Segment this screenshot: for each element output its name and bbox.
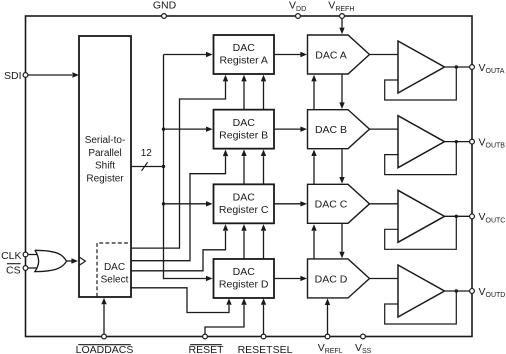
svg-text:Register A: Register A [219,55,267,67]
svg-text:RESET: RESET [188,344,224,354]
wire ref up D to C [313,231,315,259]
op-amp C feedback loop [385,216,457,249]
wire bus to DAC Register A [164,54,207,56]
svg-text:DAC: DAC [104,262,125,273]
wire DAC B to op-amp [370,128,399,130]
svg-text:LOADDACS: LOADDACS [76,344,134,354]
svg-text:CS: CS [6,264,21,276]
svg-text:CLK: CLK [1,250,21,262]
op-amp A feedback loop [385,67,457,100]
svg-text:DAC: DAC [233,42,256,54]
DAC Register A box [214,35,275,74]
wire SDI to shift register [28,74,72,76]
wire LOADDACS to shift register [103,304,105,334]
pin GND [162,14,167,19]
DAC B pentagon [308,110,370,149]
wire select to register B [131,156,226,261]
clock input triangle [80,257,86,265]
pin LOADDACS [102,334,107,339]
wire ref down B to C [341,149,343,177]
wire bus to DAC Register D [164,277,207,279]
pin VOUTC [470,214,475,219]
wire op-amp B output [445,141,473,143]
wire ref down C to D [341,224,343,252]
svg-text:DAC: DAC [233,192,256,204]
op-amp A [398,41,445,93]
wire load chain C-B right [263,156,265,184]
pin SDI [23,73,28,78]
pin VREFL [325,334,330,339]
DAC D pentagon [308,259,370,298]
wire register A to DAC A [274,54,301,56]
wire load chain B-A left [243,82,245,110]
svg-text:Parallel: Parallel [88,148,121,159]
pin VOUTD [470,289,475,294]
op-amp D feedback loop [385,291,457,324]
wire op-amp A output [445,66,473,68]
wire VREFH to DAC A [341,18,343,27]
wire register D to DAC D [274,277,301,279]
svg-text:GND: GND [153,0,177,12]
junction op-amp A output [455,65,458,68]
wire register B to DAC B [274,128,301,130]
svg-text:DAC: DAC [233,117,256,129]
op-amp B [398,116,445,168]
op-amp C [398,190,445,242]
DAC A pentagon [308,35,370,74]
wire load chain D-C right [263,231,265,259]
wire select to register C [131,231,226,271]
svg-text:Register: Register [86,173,124,184]
svg-text:Register C: Register C [219,204,269,216]
pin VSS [361,334,366,339]
pin RESETSEL [261,334,266,339]
DAC Register C box [214,184,275,223]
wire CLK to gate [28,254,40,256]
svg-text:Select: Select [101,275,129,286]
pin VOUTB [470,139,475,144]
DAC C pentagon [308,184,370,223]
junction op-amp C output [455,215,458,218]
svg-text:DAC: DAC [233,266,256,278]
svg-text:RESETSEL: RESETSEL [238,344,293,354]
junction bus-B [162,127,165,130]
wire ref up B to A [313,82,315,110]
svg-text:DAC B: DAC B [315,124,347,136]
svg-text:Serial-to-: Serial-to- [85,135,126,146]
svg-text:Register D: Register D [219,279,269,291]
svg-text:DAC C: DAC C [315,199,348,211]
junction bus-12 [162,165,165,168]
wire DAC C to op-amp [370,203,399,205]
svg-text:12: 12 [141,148,153,159]
DAC Select dashed box [97,243,131,297]
wire VREFL to DAC D [327,305,329,334]
wire load chain B-A right [263,82,265,110]
DAC Register B box [214,110,275,149]
wire bus to DAC Register C [164,203,207,205]
junction bus-C [162,202,165,205]
serial-to-parallel shift register box [79,36,131,297]
wire bus to DAC Register B [164,128,207,130]
svg-text:DAC A: DAC A [315,49,347,61]
wire op-amp C output [445,215,473,217]
wire ref up C to B [313,156,315,184]
wire select to register A [131,82,226,249]
svg-text:Shift: Shift [95,161,115,172]
pin VOUTA [470,65,475,70]
wire 12-bit bus from shift register [131,166,164,168]
junction op-amp B output [455,140,458,143]
pin VREFH [340,14,345,19]
wire DAC A to op-amp [370,54,399,56]
wire load chain C-B left [243,156,245,184]
op-amp B feedback loop [385,142,457,175]
pin CS-bar [23,266,28,271]
pin RESET [203,334,208,339]
wire op-amp D output [445,290,473,292]
DAC Register D box [214,259,275,298]
svg-text:DAC D: DAC D [315,273,348,285]
wire gate to clock input [67,260,72,262]
wire RESETSEL to register D [263,305,265,334]
bus vertical trunk [163,55,165,280]
svg-text:Register B: Register B [219,129,268,141]
or-gate G1 [35,250,67,271]
junction op-amp D output [455,289,458,292]
pin CLK [23,252,28,257]
wire register C to DAC C [274,203,301,205]
wire select to register D [131,288,230,313]
wire load chain D-C left [243,231,245,259]
wire ref down A to B [341,75,343,103]
wire CS to gate [28,267,40,269]
op-amp D [398,265,445,317]
pin VDD [296,14,301,19]
wire RESET to register D [205,305,244,334]
svg-text:SDI: SDI [4,70,22,82]
bus width slash [142,162,148,171]
wire DAC D to op-amp [370,277,399,279]
